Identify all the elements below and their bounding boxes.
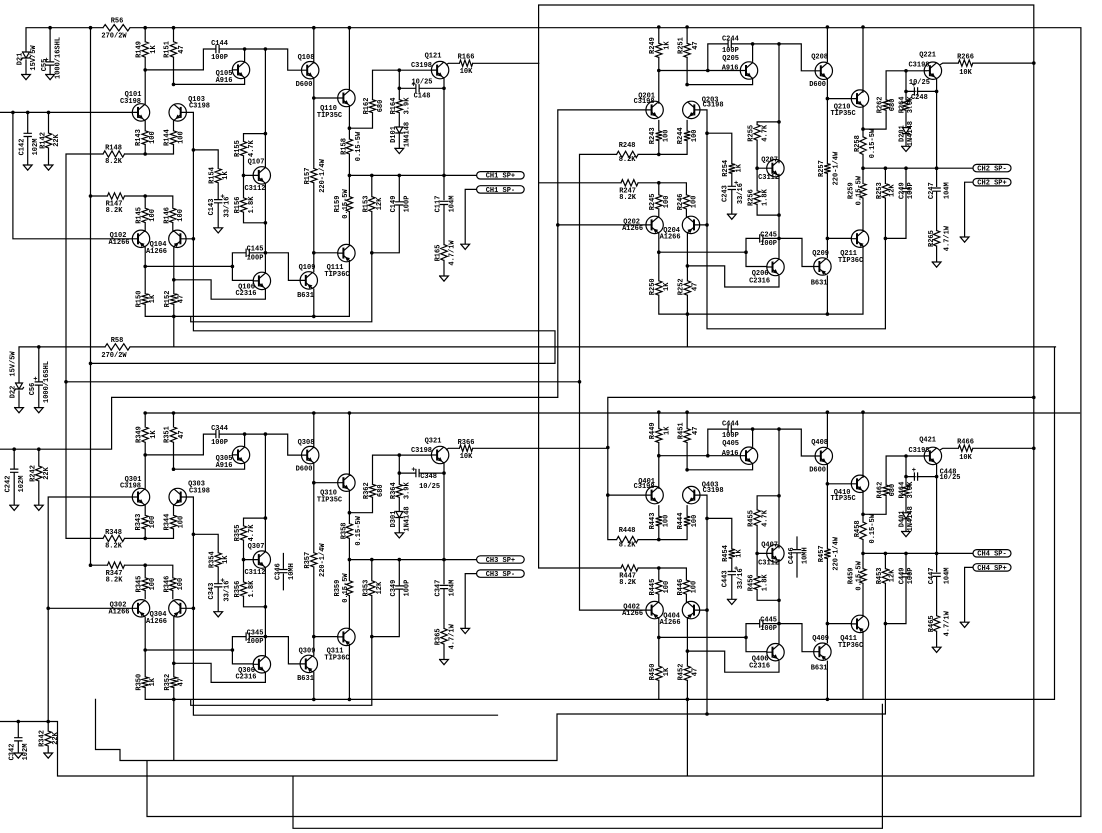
svg-text:R242: R242	[29, 465, 37, 482]
svg-text:A916: A916	[722, 65, 739, 73]
svg-text:Q408: Q408	[811, 439, 828, 447]
svg-text:D101: D101	[390, 126, 398, 143]
svg-text:CH2 SP+: CH2 SP+	[977, 180, 1006, 188]
svg-text:R344: R344	[164, 514, 172, 531]
svg-text:22K: 22K	[43, 466, 51, 479]
svg-text:100P: 100P	[404, 196, 412, 213]
svg-text:0.15-5W: 0.15-5W	[869, 128, 877, 158]
svg-text:R346: R346	[163, 576, 171, 593]
svg-text:A1266: A1266	[622, 610, 643, 618]
svg-text:R451: R451	[677, 422, 685, 439]
svg-text:104M: 104M	[448, 580, 456, 597]
svg-text:C3112: C3112	[758, 559, 779, 567]
svg-text:C447: C447	[928, 567, 936, 584]
svg-text:C3198: C3198	[634, 98, 655, 106]
svg-text:R366: R366	[458, 439, 475, 447]
svg-text:1.8K: 1.8K	[761, 188, 769, 206]
svg-text:C3198: C3198	[908, 62, 929, 70]
svg-text:D301: D301	[390, 511, 398, 528]
svg-text:TIP36C: TIP36C	[838, 642, 863, 650]
svg-text:R142: R142	[39, 132, 47, 149]
svg-text:R243: R243	[649, 127, 657, 144]
svg-text:12K: 12K	[376, 581, 384, 594]
svg-text:102M: 102M	[22, 744, 30, 761]
svg-text:100: 100	[691, 581, 699, 594]
svg-text:100: 100	[663, 581, 671, 594]
svg-text:C2316: C2316	[749, 663, 770, 671]
svg-text:R249: R249	[649, 37, 657, 54]
svg-text:D600: D600	[809, 466, 826, 474]
svg-text:4.7/1W: 4.7/1W	[944, 225, 952, 251]
svg-text:47: 47	[692, 41, 700, 49]
svg-text:R354: R354	[208, 551, 216, 568]
svg-text:TIP36C: TIP36C	[838, 257, 863, 265]
svg-text:R343: R343	[135, 514, 143, 531]
svg-text:100: 100	[663, 129, 671, 142]
svg-text:Q121: Q121	[425, 52, 442, 60]
svg-text:R448: R448	[619, 527, 636, 535]
svg-text:TIP35C: TIP35C	[317, 112, 342, 120]
svg-text:0.15-5W: 0.15-5W	[856, 175, 864, 205]
svg-text:C242: C242	[5, 476, 13, 493]
svg-text:R143: R143	[135, 129, 143, 146]
svg-text:R58: R58	[111, 337, 124, 345]
svg-text:100: 100	[691, 196, 699, 209]
svg-text:R466: R466	[957, 439, 974, 447]
svg-text:R454: R454	[722, 545, 730, 562]
svg-text:100P: 100P	[760, 625, 777, 633]
svg-text:12K: 12K	[376, 197, 384, 210]
svg-text:C248: C248	[911, 94, 928, 102]
svg-text:+: +	[411, 467, 415, 475]
svg-text:R349: R349	[135, 426, 143, 443]
svg-text:R266: R266	[957, 53, 974, 61]
svg-text:D201: D201	[899, 125, 907, 142]
svg-text:8.2K: 8.2K	[106, 207, 124, 215]
svg-text:104M: 104M	[944, 567, 952, 584]
svg-text:R458: R458	[854, 520, 862, 537]
svg-text:4.7K: 4.7K	[761, 509, 769, 527]
svg-text:TIP35C: TIP35C	[830, 110, 855, 118]
svg-text:100: 100	[149, 516, 157, 529]
svg-text:Q421: Q421	[919, 437, 936, 445]
svg-text:1.8K: 1.8K	[248, 580, 256, 598]
svg-text:C446: C446	[788, 547, 796, 564]
svg-text:R158: R158	[341, 138, 349, 155]
svg-text:R456: R456	[748, 574, 756, 591]
svg-text:C445: C445	[760, 617, 777, 625]
svg-text:680: 680	[377, 484, 385, 497]
svg-text:8.2K: 8.2K	[106, 577, 124, 585]
svg-text:C144: C144	[211, 40, 228, 48]
svg-text:R365: R365	[435, 628, 443, 645]
svg-text:C244: C244	[722, 35, 739, 43]
svg-text:100: 100	[177, 209, 185, 222]
svg-text:A1266: A1266	[660, 234, 681, 242]
svg-text:47: 47	[178, 430, 186, 438]
svg-text:C343: C343	[208, 583, 216, 600]
svg-text:A916: A916	[216, 77, 233, 85]
svg-text:Q321: Q321	[425, 437, 442, 445]
svg-text:C148: C148	[414, 93, 431, 101]
svg-text:220-1/4W: 220-1/4W	[832, 536, 840, 570]
svg-text:33/16: 33/16	[224, 196, 232, 217]
svg-text:R452: R452	[678, 664, 686, 681]
svg-text:8.2K: 8.2K	[619, 579, 637, 587]
svg-text:Q209: Q209	[812, 250, 829, 258]
svg-text:Q108: Q108	[298, 54, 315, 62]
svg-text:+: +	[44, 57, 48, 65]
svg-text:Q307: Q307	[248, 543, 265, 551]
svg-text:100P: 100P	[247, 254, 264, 262]
svg-text:4.7K: 4.7K	[248, 524, 256, 542]
svg-text:CH3 SP-: CH3 SP-	[486, 571, 515, 579]
svg-text:33/16: 33/16	[224, 581, 232, 602]
svg-text:R56: R56	[111, 18, 124, 26]
svg-text:47: 47	[178, 295, 186, 303]
svg-text:100P: 100P	[211, 439, 228, 447]
svg-text:104M: 104M	[944, 182, 952, 199]
svg-text:R246: R246	[677, 193, 685, 210]
svg-text:C349: C349	[390, 580, 398, 597]
svg-text:8.2K: 8.2K	[105, 158, 123, 166]
svg-text:270/2W: 270/2W	[101, 32, 127, 40]
svg-text:+: +	[912, 467, 916, 475]
svg-text:100: 100	[149, 209, 157, 222]
svg-text:R252: R252	[678, 278, 686, 295]
svg-text:8.2K: 8.2K	[619, 194, 637, 202]
svg-text:C3198: C3198	[189, 487, 210, 495]
svg-text:R357: R357	[304, 552, 312, 569]
svg-text:C145: C145	[247, 246, 264, 254]
svg-text:Q308: Q308	[298, 439, 315, 447]
svg-text:R443: R443	[649, 513, 657, 530]
svg-text:22K: 22K	[53, 133, 61, 146]
svg-text:R248: R248	[619, 142, 636, 150]
svg-text:1K: 1K	[149, 677, 157, 686]
svg-text:R455: R455	[748, 510, 756, 527]
svg-text:C342: C342	[9, 744, 17, 761]
svg-text:1K: 1K	[664, 41, 672, 50]
svg-text:1000/16SHL: 1000/16SHL	[55, 37, 63, 79]
svg-text:A1266: A1266	[146, 248, 167, 256]
svg-text:Q407: Q407	[761, 542, 778, 550]
svg-text:Q208: Q208	[811, 54, 828, 62]
svg-text:100P: 100P	[404, 580, 412, 597]
svg-text:R256: R256	[748, 189, 756, 206]
svg-text:R449: R449	[649, 422, 657, 439]
svg-text:100P: 100P	[907, 182, 915, 199]
svg-text:1K: 1K	[664, 426, 672, 435]
svg-text:Q405: Q405	[722, 440, 739, 448]
svg-text:10/25: 10/25	[939, 474, 960, 482]
svg-text:C3198: C3198	[634, 483, 655, 491]
svg-text:10K: 10K	[460, 68, 473, 76]
svg-text:C3112: C3112	[244, 569, 265, 577]
svg-text:C3198: C3198	[703, 487, 724, 495]
svg-text:4.7/1W: 4.7/1W	[448, 240, 456, 266]
svg-text:C344: C344	[211, 425, 228, 433]
svg-text:C249: C249	[899, 182, 907, 199]
svg-text:1N4148: 1N4148	[404, 506, 412, 531]
svg-text:D22: D22	[9, 386, 17, 399]
svg-text:104M: 104M	[448, 196, 456, 213]
svg-text:R156: R156	[234, 197, 242, 214]
svg-text:TIP35C: TIP35C	[830, 495, 855, 503]
svg-text:C348: C348	[420, 473, 437, 481]
svg-text:C3198: C3198	[411, 447, 432, 455]
svg-text:102M: 102M	[18, 476, 26, 493]
svg-text:100: 100	[663, 515, 671, 528]
svg-text:+: +	[220, 578, 224, 586]
svg-text:R348: R348	[105, 529, 122, 537]
svg-text:R254: R254	[722, 160, 730, 177]
svg-text:R342: R342	[39, 730, 47, 747]
svg-text:15V/5W: 15V/5W	[30, 45, 38, 71]
svg-text:R253: R253	[876, 182, 884, 199]
svg-text:R453: R453	[876, 567, 884, 584]
svg-text:D600: D600	[809, 81, 826, 89]
svg-text:3.9K: 3.9K	[404, 482, 412, 500]
svg-text:100: 100	[691, 129, 699, 142]
svg-text:1K: 1K	[150, 430, 158, 439]
svg-text:C2316: C2316	[749, 277, 770, 285]
svg-text:R146: R146	[163, 207, 171, 224]
svg-text:100: 100	[149, 131, 157, 144]
svg-text:680: 680	[889, 99, 897, 112]
svg-text:1K: 1K	[736, 549, 744, 558]
svg-text:10/25: 10/25	[411, 79, 432, 87]
svg-text:C3198: C3198	[120, 483, 141, 491]
svg-text:C3198: C3198	[120, 98, 141, 106]
svg-text:+: +	[220, 193, 224, 201]
svg-text:0.15-5W: 0.15-5W	[342, 573, 350, 603]
svg-text:100: 100	[177, 131, 185, 144]
svg-text:+: +	[734, 565, 738, 573]
svg-text:R255: R255	[748, 125, 756, 142]
svg-text:10K: 10K	[959, 69, 972, 77]
svg-text:4.7K: 4.7K	[761, 124, 769, 142]
svg-text:A1266: A1266	[660, 619, 681, 627]
svg-text:1N4148: 1N4148	[907, 506, 915, 531]
svg-text:C3198: C3198	[411, 62, 432, 70]
svg-text:R350: R350	[135, 674, 143, 691]
svg-text:100P: 100P	[722, 47, 739, 55]
svg-text:CH2 SP-: CH2 SP-	[977, 166, 1006, 174]
svg-text:R144: R144	[164, 129, 172, 146]
svg-text:1K: 1K	[663, 667, 671, 676]
svg-text:R265: R265	[928, 230, 936, 247]
svg-text:10/25: 10/25	[419, 483, 440, 491]
svg-text:R465: R465	[928, 615, 936, 632]
svg-text:D401: D401	[899, 510, 907, 527]
svg-text:R355: R355	[234, 525, 242, 542]
svg-text:220-1/4W: 220-1/4W	[319, 158, 327, 192]
svg-text:47: 47	[692, 427, 700, 435]
svg-text:100P: 100P	[247, 638, 264, 646]
svg-text:22K: 22K	[52, 731, 60, 744]
svg-text:CH4 SP-: CH4 SP-	[977, 551, 1006, 559]
svg-text:R164: R164	[390, 98, 398, 115]
svg-text:C149: C149	[390, 196, 398, 213]
svg-text:R358: R358	[341, 522, 349, 539]
svg-text:Q205: Q205	[722, 55, 739, 63]
svg-text:D600: D600	[296, 81, 313, 89]
svg-text:R457: R457	[818, 545, 826, 562]
svg-text:R459: R459	[847, 567, 855, 584]
svg-text:C3112: C3112	[244, 185, 265, 193]
svg-text:R264: R264	[899, 96, 907, 113]
svg-text:A916: A916	[722, 450, 739, 458]
svg-text:R359: R359	[334, 580, 342, 597]
svg-text:100: 100	[149, 578, 157, 591]
svg-text:C2316: C2316	[235, 290, 256, 298]
svg-text:1K: 1K	[222, 171, 230, 180]
svg-text:R362: R362	[363, 482, 371, 499]
svg-text:R259: R259	[847, 182, 855, 199]
svg-text:D21: D21	[16, 53, 24, 66]
svg-text:0.15-5W: 0.15-5W	[856, 560, 864, 590]
svg-text:R166: R166	[458, 54, 475, 62]
svg-text:A1266: A1266	[108, 239, 129, 247]
svg-text:R157: R157	[304, 168, 312, 185]
svg-text:R148: R148	[105, 145, 122, 153]
svg-text:C143: C143	[208, 199, 216, 216]
svg-text:10K: 10K	[959, 454, 972, 462]
svg-text:47: 47	[691, 668, 699, 676]
svg-text:CH4 SP+: CH4 SP+	[977, 565, 1006, 573]
svg-text:1N4148: 1N4148	[404, 122, 412, 147]
svg-text:TIP36C: TIP36C	[324, 271, 349, 279]
svg-text:R152: R152	[164, 291, 172, 308]
svg-text:C56: C56	[29, 383, 37, 396]
svg-text:33/16: 33/16	[737, 183, 745, 204]
svg-text:0.15-5W: 0.15-5W	[355, 131, 363, 161]
svg-text:CH1 SP+: CH1 SP+	[486, 173, 515, 181]
svg-text:C3198: C3198	[908, 447, 929, 455]
svg-text:CH1 SP-: CH1 SP-	[486, 187, 515, 195]
svg-text:B631: B631	[811, 665, 828, 673]
svg-text:A1266: A1266	[108, 609, 129, 617]
svg-text:R444: R444	[677, 513, 685, 530]
svg-text:15V/5W: 15V/5W	[9, 351, 17, 377]
svg-text:47: 47	[178, 678, 186, 686]
svg-text:R165: R165	[435, 245, 443, 262]
svg-text:3.9K: 3.9K	[907, 481, 915, 499]
svg-text:C347: C347	[435, 580, 443, 597]
svg-text:680: 680	[377, 100, 385, 113]
svg-text:B631: B631	[297, 292, 314, 300]
svg-text:4.7/1W: 4.7/1W	[448, 623, 456, 649]
svg-text:1K: 1K	[736, 163, 744, 172]
svg-text:R356: R356	[234, 581, 242, 598]
svg-text:R162: R162	[363, 98, 371, 115]
svg-text:C3198: C3198	[703, 102, 724, 110]
svg-text:0.15-5W: 0.15-5W	[869, 513, 877, 543]
svg-text:C243: C243	[722, 185, 730, 202]
svg-text:+: +	[33, 376, 37, 384]
svg-text:100: 100	[177, 578, 185, 591]
svg-text:A1266: A1266	[622, 225, 643, 233]
svg-text:B631: B631	[811, 279, 828, 287]
svg-text:1.8K: 1.8K	[761, 574, 769, 592]
svg-text:C142: C142	[18, 139, 26, 156]
svg-text:R155: R155	[234, 140, 242, 157]
svg-text:Q221: Q221	[919, 51, 936, 59]
svg-text:270/2W: 270/2W	[101, 352, 127, 360]
svg-text:C247: C247	[928, 182, 936, 199]
svg-text:3.9K: 3.9K	[404, 97, 412, 115]
svg-text:TIP36C: TIP36C	[324, 654, 349, 662]
svg-text:A916: A916	[216, 462, 233, 470]
svg-text:100P: 100P	[760, 240, 777, 248]
svg-text:100P: 100P	[211, 54, 228, 62]
svg-text:0.15-5W: 0.15-5W	[342, 188, 350, 218]
svg-text:CH3 SP+: CH3 SP+	[486, 557, 515, 565]
svg-text:TIP35C: TIP35C	[317, 497, 342, 505]
svg-text:R262: R262	[877, 96, 885, 113]
svg-text:8.2K: 8.2K	[619, 541, 637, 549]
svg-text:Q409: Q409	[812, 635, 829, 643]
svg-text:1.8K: 1.8K	[248, 196, 256, 214]
svg-text:100P: 100P	[907, 567, 915, 584]
svg-text:R462: R462	[877, 482, 885, 499]
svg-text:100: 100	[691, 515, 699, 528]
svg-text:R159: R159	[334, 196, 342, 213]
svg-text:R445: R445	[649, 579, 657, 596]
svg-text:R245: R245	[649, 193, 657, 210]
svg-text:47: 47	[691, 283, 699, 291]
svg-text:R352: R352	[164, 674, 172, 691]
svg-text:33/16: 33/16	[737, 568, 745, 589]
svg-text:1K: 1K	[149, 294, 157, 303]
svg-text:R154: R154	[208, 167, 216, 184]
svg-text:C2316: C2316	[235, 674, 256, 682]
svg-text:1N4148: 1N4148	[907, 121, 915, 146]
svg-text:R151: R151	[164, 41, 172, 58]
svg-text:R149: R149	[135, 41, 143, 58]
svg-text:12K: 12K	[889, 184, 897, 197]
svg-text:Q109: Q109	[299, 264, 316, 272]
svg-text:12K: 12K	[889, 569, 897, 582]
svg-text:10MH: 10MH	[801, 547, 809, 564]
svg-text:R258: R258	[854, 135, 862, 152]
svg-text:+: +	[734, 180, 738, 188]
svg-text:47: 47	[178, 45, 186, 53]
svg-text:R244: R244	[677, 127, 685, 144]
svg-text:8.2K: 8.2K	[105, 543, 123, 551]
svg-text:R364: R364	[390, 482, 398, 499]
svg-text:R446: R446	[677, 579, 685, 596]
svg-text:C245: C245	[760, 231, 777, 239]
svg-text:Q309: Q309	[299, 648, 316, 656]
svg-text:R353: R353	[362, 580, 370, 597]
svg-text:R153: R153	[362, 196, 370, 213]
svg-text:C3112: C3112	[758, 174, 779, 182]
svg-text:R251: R251	[677, 37, 685, 54]
svg-text:Q207: Q207	[761, 157, 778, 165]
svg-text:R257: R257	[818, 160, 826, 177]
svg-text:C443: C443	[722, 570, 730, 587]
svg-text:100P: 100P	[722, 432, 739, 440]
svg-text:A1266: A1266	[146, 618, 167, 626]
svg-text:0.15-5W: 0.15-5W	[355, 515, 363, 545]
svg-text:100: 100	[663, 196, 671, 209]
svg-text:D600: D600	[296, 466, 313, 474]
svg-text:1K: 1K	[222, 555, 230, 564]
svg-text:R250: R250	[649, 278, 657, 295]
svg-text:C449: C449	[899, 567, 907, 584]
